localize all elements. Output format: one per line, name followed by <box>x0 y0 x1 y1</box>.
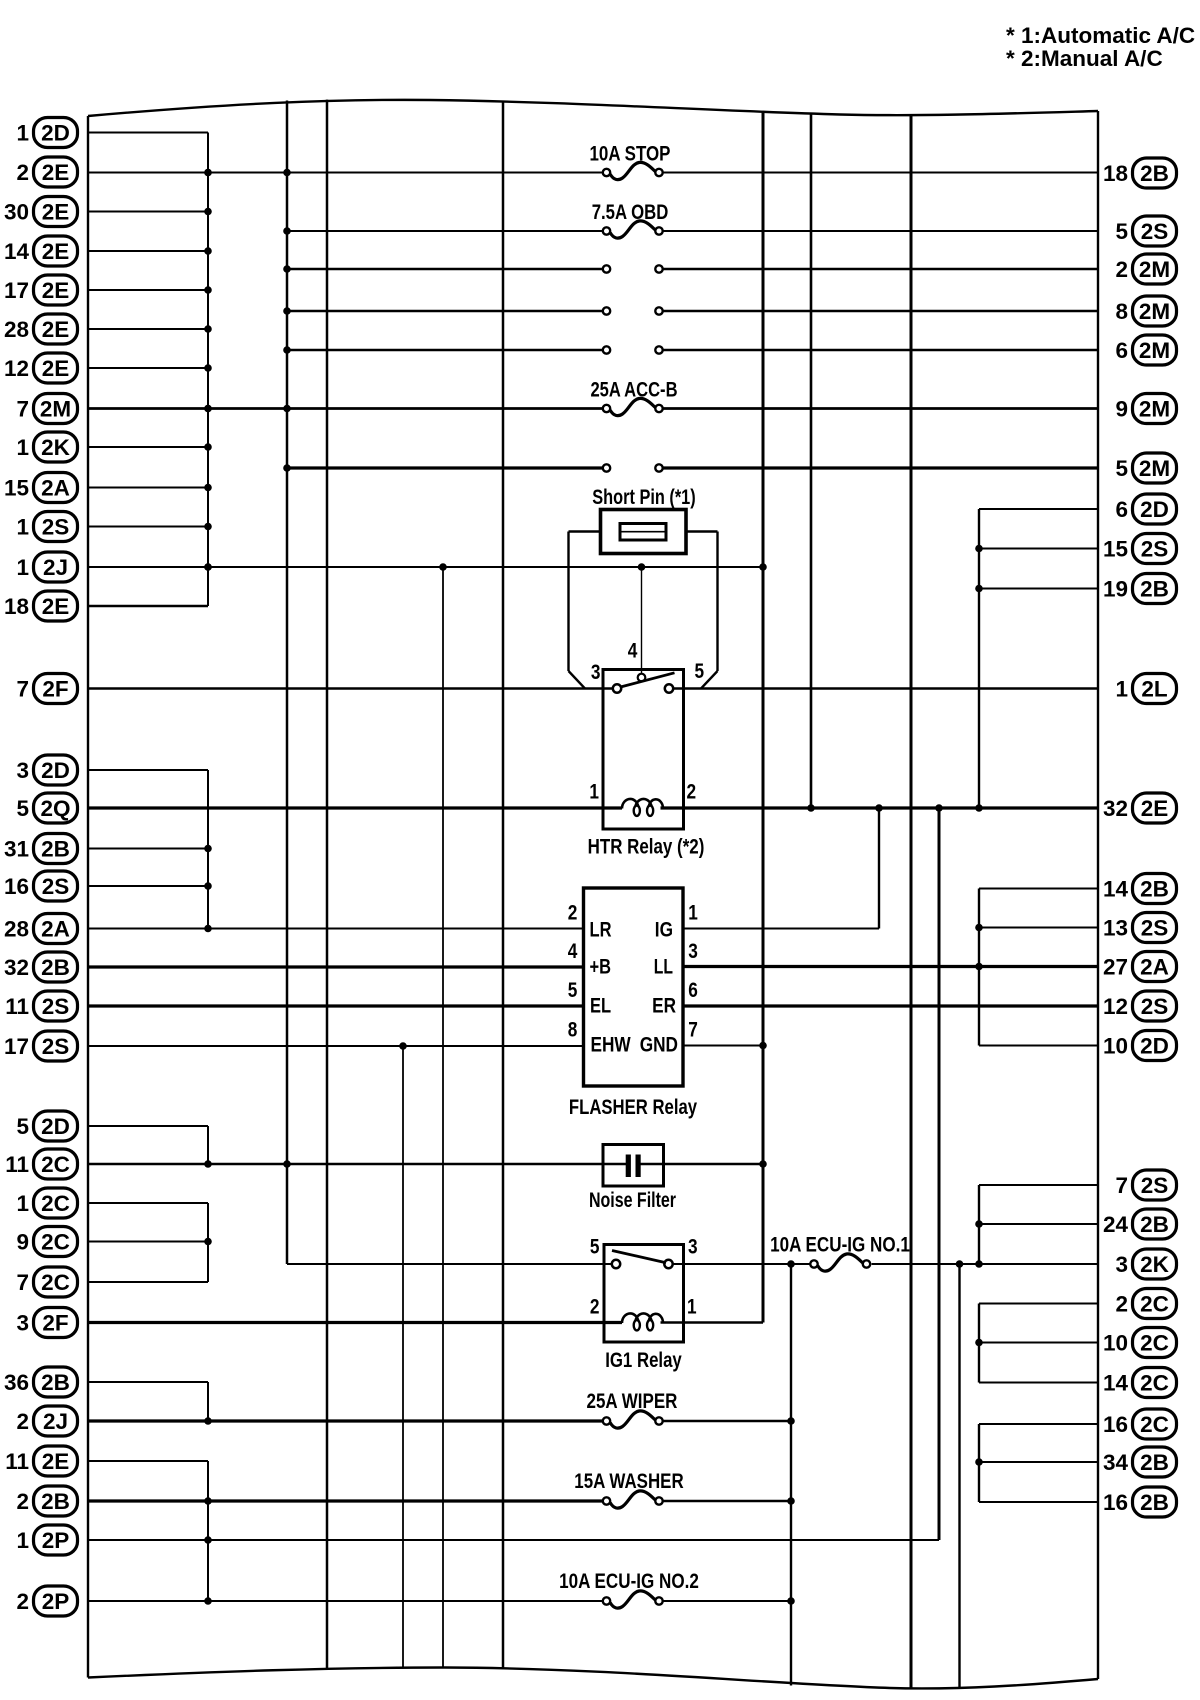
svg-text:2E: 2E <box>1141 796 1169 821</box>
svg-text:14: 14 <box>1103 876 1129 901</box>
svg-text:LL: LL <box>654 956 673 979</box>
svg-text:Noise Filter: Noise Filter <box>589 1189 676 1212</box>
svg-text:7: 7 <box>16 1270 29 1295</box>
svg-text:2A: 2A <box>41 916 70 941</box>
svg-text:36: 36 <box>4 1370 29 1395</box>
svg-text:2B: 2B <box>1140 1450 1169 1475</box>
svg-text:10A ECU-IG NO.1: 10A ECU-IG NO.1 <box>770 1234 910 1257</box>
svg-text:1: 1 <box>16 1528 29 1553</box>
svg-text:2B: 2B <box>1140 576 1169 601</box>
svg-text:17: 17 <box>4 1034 29 1059</box>
svg-text:2D: 2D <box>41 758 70 783</box>
svg-text:2: 2 <box>16 1589 29 1614</box>
svg-text:2B: 2B <box>1140 876 1169 901</box>
svg-text:10: 10 <box>1103 1033 1128 1058</box>
svg-text:2M: 2M <box>1139 456 1170 481</box>
svg-text:2K: 2K <box>1140 1252 1170 1277</box>
svg-text:2: 2 <box>16 1409 29 1434</box>
svg-text:2M: 2M <box>40 396 71 421</box>
svg-text:2Q: 2Q <box>40 796 70 821</box>
svg-text:4: 4 <box>628 640 638 663</box>
svg-text:* 1:Automatic A/C: * 1:Automatic A/C <box>1006 23 1195 48</box>
svg-text:2B: 2B <box>41 1370 70 1395</box>
svg-text:25A WIPER: 25A WIPER <box>587 1390 678 1413</box>
svg-text:2S: 2S <box>42 994 70 1019</box>
svg-text:2J: 2J <box>43 1409 68 1434</box>
svg-text:9: 9 <box>16 1229 29 1254</box>
svg-text:1: 1 <box>687 1296 697 1319</box>
svg-text:2S: 2S <box>1141 219 1169 244</box>
svg-text:3: 3 <box>16 758 29 783</box>
svg-text:1: 1 <box>16 120 29 145</box>
svg-text:5: 5 <box>568 979 578 1002</box>
svg-text:2: 2 <box>16 160 29 185</box>
svg-text:2C: 2C <box>41 1152 70 1177</box>
svg-text:15: 15 <box>4 475 29 500</box>
svg-text:2M: 2M <box>1139 338 1170 363</box>
svg-text:3: 3 <box>688 1236 698 1259</box>
svg-text:13: 13 <box>1103 915 1128 940</box>
svg-text:* 2:Manual A/C: * 2:Manual A/C <box>1006 46 1163 71</box>
svg-text:2J: 2J <box>43 555 68 580</box>
svg-text:GND: GND <box>640 1034 678 1057</box>
svg-text:2B: 2B <box>41 1489 70 1514</box>
svg-text:3: 3 <box>16 1310 29 1335</box>
svg-text:2E: 2E <box>42 199 70 224</box>
svg-text:2F: 2F <box>42 676 68 701</box>
svg-text:28: 28 <box>4 916 29 941</box>
svg-text:7: 7 <box>688 1019 698 1042</box>
svg-text:2E: 2E <box>42 239 70 264</box>
svg-text:10: 10 <box>1103 1330 1128 1355</box>
svg-text:1: 1 <box>16 555 29 580</box>
svg-text:7: 7 <box>1115 1173 1128 1198</box>
svg-text:2C: 2C <box>1140 1370 1169 1395</box>
svg-text:27: 27 <box>1103 954 1128 979</box>
svg-text:5: 5 <box>16 1114 29 1139</box>
svg-text:2B: 2B <box>1140 1490 1169 1515</box>
svg-text:7: 7 <box>16 676 29 701</box>
svg-text:EHW: EHW <box>591 1034 631 1057</box>
svg-text:5: 5 <box>1115 456 1128 481</box>
svg-text:12: 12 <box>4 356 29 381</box>
svg-text:14: 14 <box>1103 1370 1129 1395</box>
svg-text:32: 32 <box>1103 796 1128 821</box>
svg-text:16: 16 <box>4 874 29 899</box>
svg-text:2: 2 <box>1115 257 1128 282</box>
svg-text:18: 18 <box>4 594 29 619</box>
svg-text:11: 11 <box>5 1152 29 1177</box>
svg-text:11: 11 <box>5 994 29 1019</box>
svg-text:Short Pin (*1): Short Pin (*1) <box>592 486 695 509</box>
svg-text:2P: 2P <box>42 1589 70 1614</box>
svg-text:IG: IG <box>655 919 673 942</box>
svg-text:6: 6 <box>688 979 698 1002</box>
svg-text:7.5A OBD: 7.5A OBD <box>592 201 669 224</box>
svg-text:2B: 2B <box>1140 161 1169 186</box>
svg-text:2C: 2C <box>1140 1291 1169 1316</box>
svg-text:8: 8 <box>568 1019 578 1042</box>
svg-text:+B: +B <box>590 956 612 979</box>
svg-text:1: 1 <box>16 435 29 460</box>
svg-text:LR: LR <box>590 919 612 942</box>
svg-text:16: 16 <box>1103 1412 1128 1437</box>
svg-text:2E: 2E <box>42 317 70 342</box>
svg-text:34: 34 <box>1103 1450 1129 1475</box>
svg-text:2: 2 <box>16 1489 29 1514</box>
svg-text:9: 9 <box>1115 396 1128 421</box>
svg-text:2E: 2E <box>42 1449 70 1474</box>
svg-text:2K: 2K <box>41 435 71 460</box>
svg-text:5: 5 <box>1115 219 1128 244</box>
svg-text:2A: 2A <box>41 475 70 500</box>
svg-text:2L: 2L <box>1141 676 1168 701</box>
svg-text:ER: ER <box>652 995 676 1018</box>
svg-text:2M: 2M <box>1139 257 1170 282</box>
svg-text:2C: 2C <box>1140 1330 1169 1355</box>
svg-text:5: 5 <box>695 660 705 683</box>
svg-text:17: 17 <box>4 278 29 303</box>
svg-text:19: 19 <box>1103 576 1128 601</box>
svg-text:3: 3 <box>688 940 698 963</box>
svg-text:2B: 2B <box>1140 1212 1169 1237</box>
svg-text:31: 31 <box>4 836 29 861</box>
svg-text:2S: 2S <box>42 514 70 539</box>
svg-text:2B: 2B <box>41 836 70 861</box>
svg-text:2B: 2B <box>41 955 70 980</box>
svg-text:2D: 2D <box>41 1114 70 1139</box>
svg-text:IG1 Relay: IG1 Relay <box>605 1349 682 1372</box>
svg-text:4: 4 <box>568 940 578 963</box>
svg-text:1: 1 <box>1115 676 1128 701</box>
svg-text:3: 3 <box>1115 1252 1128 1277</box>
svg-text:1: 1 <box>16 1191 29 1216</box>
svg-text:2P: 2P <box>42 1528 70 1553</box>
svg-text:2C: 2C <box>1140 1412 1169 1437</box>
svg-text:2D: 2D <box>1140 1033 1169 1058</box>
svg-text:16: 16 <box>1103 1490 1128 1515</box>
svg-text:2E: 2E <box>42 594 70 619</box>
svg-text:2C: 2C <box>41 1191 70 1216</box>
svg-text:6: 6 <box>1115 497 1128 522</box>
svg-text:30: 30 <box>4 199 29 224</box>
svg-text:2M: 2M <box>1139 396 1170 421</box>
svg-text:FLASHER Relay: FLASHER Relay <box>569 1096 697 1119</box>
svg-text:2E: 2E <box>42 278 70 303</box>
svg-text:1: 1 <box>589 781 599 804</box>
svg-text:2S: 2S <box>42 874 70 899</box>
svg-text:EL: EL <box>590 995 611 1018</box>
svg-text:10A ECU-IG NO.2: 10A ECU-IG NO.2 <box>559 1570 699 1593</box>
svg-text:10A STOP: 10A STOP <box>590 143 671 166</box>
svg-text:2: 2 <box>1115 1291 1128 1316</box>
svg-text:7: 7 <box>16 396 29 421</box>
svg-text:1: 1 <box>16 514 29 539</box>
svg-text:2C: 2C <box>41 1270 70 1295</box>
svg-text:32: 32 <box>4 955 29 980</box>
svg-text:25A ACC-B: 25A ACC-B <box>590 379 677 402</box>
svg-text:24: 24 <box>1103 1212 1129 1237</box>
svg-text:3: 3 <box>591 661 601 684</box>
svg-text:2E: 2E <box>42 356 70 381</box>
svg-text:6: 6 <box>1115 338 1128 363</box>
svg-text:2E: 2E <box>42 160 70 185</box>
svg-text:HTR Relay (*2): HTR Relay (*2) <box>588 836 705 859</box>
svg-text:2C: 2C <box>41 1229 70 1254</box>
svg-text:2M: 2M <box>1139 299 1170 324</box>
svg-text:5: 5 <box>16 796 29 821</box>
svg-text:2S: 2S <box>42 1034 70 1059</box>
svg-text:2D: 2D <box>41 120 70 145</box>
svg-text:2: 2 <box>568 902 578 925</box>
svg-text:2S: 2S <box>1141 536 1169 561</box>
svg-text:2: 2 <box>687 781 697 804</box>
svg-text:14: 14 <box>4 239 30 264</box>
svg-text:2A: 2A <box>1140 954 1169 979</box>
svg-text:28: 28 <box>4 317 29 342</box>
svg-text:15: 15 <box>1103 536 1128 561</box>
svg-text:8: 8 <box>1115 299 1128 324</box>
svg-text:15A WASHER: 15A WASHER <box>574 1470 683 1493</box>
svg-text:1: 1 <box>688 902 698 925</box>
svg-text:12: 12 <box>1103 994 1128 1019</box>
svg-text:5: 5 <box>590 1236 600 1259</box>
svg-text:2F: 2F <box>42 1310 68 1335</box>
svg-text:11: 11 <box>5 1449 29 1474</box>
svg-text:2S: 2S <box>1141 915 1169 940</box>
svg-text:2D: 2D <box>1140 497 1169 522</box>
svg-text:2: 2 <box>590 1296 600 1319</box>
svg-text:18: 18 <box>1103 161 1128 186</box>
svg-text:2S: 2S <box>1141 1173 1169 1198</box>
svg-text:2S: 2S <box>1141 994 1169 1019</box>
